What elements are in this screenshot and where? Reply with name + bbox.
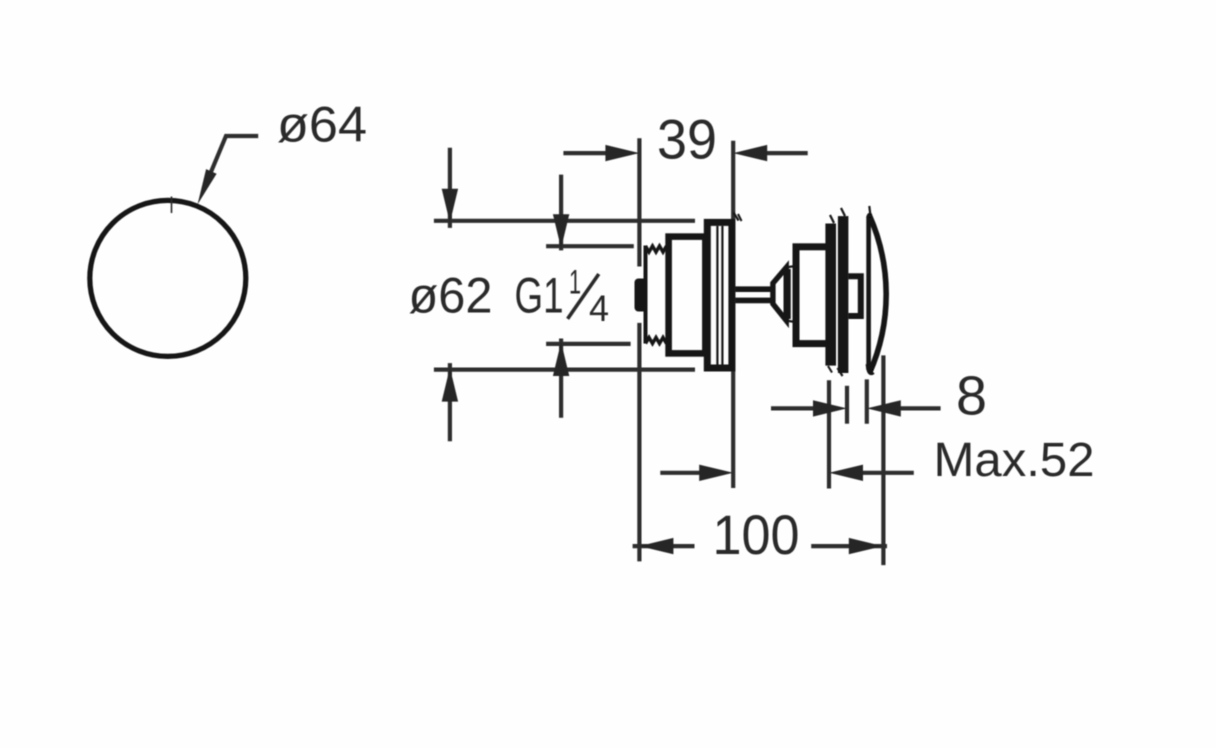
svg-text:G1: G1 bbox=[515, 267, 564, 323]
svg-text:Max.52: Max.52 bbox=[934, 433, 1095, 487]
svg-text:ø62: ø62 bbox=[409, 267, 493, 323]
svg-text:1: 1 bbox=[569, 263, 581, 301]
svg-text:100: 100 bbox=[713, 503, 800, 566]
svg-text:8: 8 bbox=[956, 366, 987, 427]
svg-text:4: 4 bbox=[589, 287, 609, 329]
svg-text:ø64: ø64 bbox=[277, 96, 367, 153]
svg-text:39: 39 bbox=[657, 109, 717, 171]
